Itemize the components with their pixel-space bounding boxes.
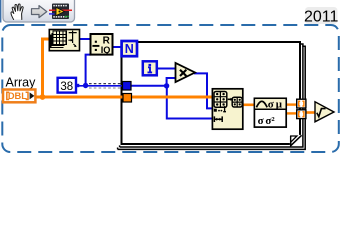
VI (film strip) icon <box>49 4 72 20</box>
terminal N (loop count) <box>122 41 137 56</box>
wire: orange branch up to array size input <box>43 39 50 98</box>
wire: array subset output to std deviation vi <box>243 104 255 107</box>
tunnel: orange (array into loop) <box>123 94 132 103</box>
wire: multiply output to array subset index input <box>194 73 213 108</box>
node: inner wire junction <box>164 83 169 88</box>
node: wire junction on 38 wire <box>83 83 88 88</box>
node: square root <box>315 102 334 122</box>
tunnel: variance out (lower) <box>297 110 306 119</box>
window edge <box>0 0 1 23</box>
wire: junction up to quotient-remainder y input <box>86 55 91 86</box>
svg-text:DBL: DBL <box>8 91 27 101</box>
wire: orange tunnel to array subset (array wire) <box>131 96 212 99</box>
terminal i (loop iteration) <box>143 61 157 75</box>
svg-text:σ²: σ² <box>265 115 275 127</box>
svg-text:Array: Array <box>6 76 37 90</box>
wire: i terminal to multiply upper input <box>157 68 177 70</box>
wire: 38 constant to blue tunnel (selected, marching ants) <box>77 84 123 88</box>
svg-text:σ: σ <box>258 115 264 127</box>
svg-text:38: 38 <box>60 81 73 93</box>
selection marquee (dashed blue rounded rectangle) <box>2 25 339 152</box>
wire: lower tunnel to square root <box>306 111 317 114</box>
constant 38 <box>58 78 80 93</box>
wire: std deviation output sigma to upper tunnel <box>286 103 297 105</box>
tunnel: sigma out (upper) <box>297 99 306 108</box>
arrow tool icon <box>32 6 47 18</box>
terminal Array [DBL] <box>3 90 35 103</box>
svg-text:σ: σ <box>268 99 274 111</box>
node: array subset <box>212 89 242 129</box>
hand (pan) tool icon <box>11 4 23 20</box>
wire: quotient-remainder IQ output to N terminal <box>113 46 122 48</box>
svg-text:IQ: IQ <box>101 45 111 55</box>
svg-text:2011: 2011 <box>304 9 339 26</box>
wire: inner junction up to multiply lower input <box>167 78 177 86</box>
wire: inner junction down to array subset length input <box>167 86 213 119</box>
node: array size U1 <box>49 30 79 51</box>
label Array <box>6 76 37 90</box>
for loop resize fold corner <box>290 135 302 146</box>
wire: std deviation output variance to lower tunnel <box>286 112 297 114</box>
node: multiply <box>176 63 196 82</box>
for loop border <box>118 42 306 149</box>
svg-text:N: N <box>125 42 134 56</box>
node: orange wire junction <box>40 94 46 100</box>
toolbar palette box <box>3 0 75 22</box>
year label 2011 <box>304 7 339 26</box>
wire: array size to quotient-remainder <box>79 38 91 40</box>
node: std deviation and variance vi <box>254 98 286 127</box>
svg-text:μ: μ <box>276 99 283 111</box>
wire: DBL terminal to junction (orange array wire) <box>34 96 124 99</box>
wire: blue tunnel to inner junction <box>131 85 168 87</box>
node: quotient and remainder <box>91 34 113 55</box>
tunnel: blue (N divisor into loop) <box>123 82 132 91</box>
